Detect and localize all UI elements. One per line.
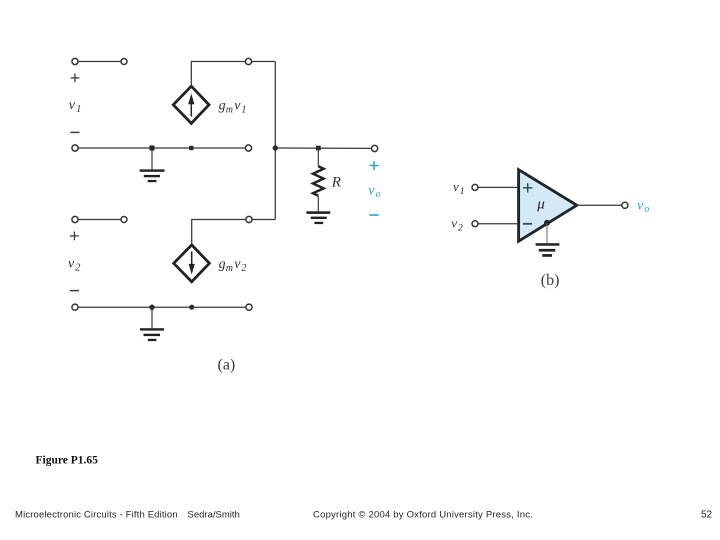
wire G2 top to upper terminal	[192, 220, 246, 245]
wire G1 top to upper-right terminal	[191, 62, 245, 87]
dependent source G1 (gm*v1) diamond	[173, 86, 209, 123]
junction dot below G1 diamond	[189, 146, 194, 151]
label (b)	[541, 272, 560, 289]
value label gm*v2	[219, 257, 247, 274]
svg-text:v: v	[453, 179, 459, 194]
wire terminal to right bus (bottom)	[252, 219, 275, 221]
junction dot on op-amp lower edge	[544, 220, 550, 226]
node terminal (top right of G1)	[245, 58, 251, 64]
node vo+ output terminal	[372, 145, 378, 151]
value label mu (gain)	[536, 197, 545, 213]
svg-text:(a): (a)	[218, 357, 236, 374]
junction dot at resistor tap (square)	[316, 146, 321, 151]
svg-text:Sedra/Smith: Sedra/Smith	[188, 509, 240, 520]
svg-text:v: v	[368, 184, 375, 199]
resistor R	[313, 148, 324, 211]
junction dot below G2 diamond	[189, 305, 194, 310]
svg-text:o: o	[644, 204, 649, 215]
node v2 input terminal	[472, 221, 478, 227]
svg-text:v: v	[68, 256, 75, 271]
op-amp U1 (gain mu) triangle	[519, 170, 577, 242]
svg-text:1: 1	[241, 105, 246, 116]
label − (v1 port polarity)	[70, 131, 79, 133]
node vo output terminal	[622, 202, 628, 208]
ground (op-amp)	[536, 243, 560, 257]
wire op-amp output	[577, 204, 622, 206]
svg-text:2: 2	[75, 262, 80, 273]
svg-text:Figure P1.65: Figure P1.65	[36, 455, 99, 467]
svg-text:v: v	[234, 99, 241, 114]
label vo (output voltage, cyan)	[368, 184, 380, 201]
svg-text:R: R	[331, 174, 341, 190]
wire v2 input to op-amp	[478, 223, 517, 225]
wire v2 port top stub	[78, 219, 120, 221]
wire v1 input to op-amp	[478, 186, 517, 188]
svg-text:g: g	[219, 99, 226, 114]
svg-text:Microelectronic Circuits - Fif: Microelectronic Circuits - Fifth Edition	[15, 509, 178, 520]
label − (output polarity, cyan)	[369, 214, 378, 216]
svg-text:2: 2	[458, 224, 463, 234]
label v2 (port voltage)	[68, 256, 80, 273]
footer book title	[15, 509, 713, 520]
label v1 (port voltage)	[69, 98, 81, 115]
wire op-amp ground stem	[546, 223, 548, 243]
svg-text:o: o	[376, 189, 381, 200]
label − (v2 port polarity)	[70, 290, 79, 292]
node v2+ terminal (bottom-left)	[72, 216, 78, 222]
node terminal (lower rail right)	[246, 304, 252, 310]
node v1+ terminal (top-left)	[72, 58, 78, 64]
wire common rail (upper section)	[78, 147, 245, 149]
arrow inside G2 (pointing down)	[189, 252, 195, 275]
svg-text:m: m	[226, 105, 233, 116]
pin + (non-inverting input mark)	[523, 183, 532, 192]
label + (output polarity, cyan)	[369, 161, 378, 170]
label v1 (op-amp input)	[453, 179, 465, 197]
wire right vertical bus	[274, 62, 276, 220]
svg-text:v: v	[451, 216, 457, 231]
svg-text:v: v	[234, 257, 241, 272]
node port stub terminal (v2)	[121, 217, 127, 223]
svg-text:1: 1	[76, 104, 81, 115]
svg-text:Copyright © 2004 by Oxford Uni: Copyright © 2004 by Oxford University Pr…	[313, 509, 533, 520]
ground (lower rail)	[140, 309, 164, 341]
pin − (inverting input mark)	[523, 223, 532, 225]
svg-text:52: 52	[701, 509, 713, 520]
junction dot at ground tap (lower rail)	[149, 305, 154, 310]
svg-text:v: v	[637, 199, 644, 214]
svg-text:m: m	[226, 263, 233, 274]
junction dot on bus at output row	[273, 145, 278, 150]
wire bus to output terminal	[275, 147, 371, 149]
label + (v2 port polarity)	[70, 232, 79, 241]
label vo (op-amp output, cyan)	[637, 199, 649, 216]
node v2− terminal (lower-left)	[72, 304, 78, 310]
svg-text:2: 2	[241, 263, 246, 274]
node port stub terminal	[121, 59, 127, 65]
ground (below resistor R)	[306, 211, 330, 224]
label (a)	[218, 357, 236, 374]
node terminal (upper rail right)	[245, 145, 251, 151]
node v1 input terminal	[472, 184, 478, 190]
caption Figure P1.65	[36, 455, 99, 467]
wire terminal to right bus (top)	[252, 61, 276, 63]
svg-text:(b): (b)	[541, 272, 560, 289]
dependent source G2 (gm*v2) diamond	[174, 245, 210, 282]
svg-text:μ: μ	[536, 197, 545, 213]
wire common rail (lower section)	[78, 306, 245, 308]
label + (v1 port polarity)	[71, 74, 80, 83]
node terminal (top right of G2)	[246, 216, 252, 222]
junction dot at ground tap (upper rail)	[149, 145, 154, 150]
svg-text:g: g	[219, 257, 226, 272]
ground (upper rail)	[140, 150, 165, 182]
svg-text:1: 1	[460, 187, 465, 197]
node v1− terminal (lower-left)	[72, 145, 78, 151]
value label R	[331, 174, 341, 190]
wire v1 port top stub	[78, 61, 120, 63]
value label gm*v1	[219, 99, 247, 116]
arrow inside G1 (pointing up)	[188, 94, 194, 117]
svg-text:v: v	[69, 98, 76, 113]
label v2 (op-amp input)	[451, 216, 463, 234]
